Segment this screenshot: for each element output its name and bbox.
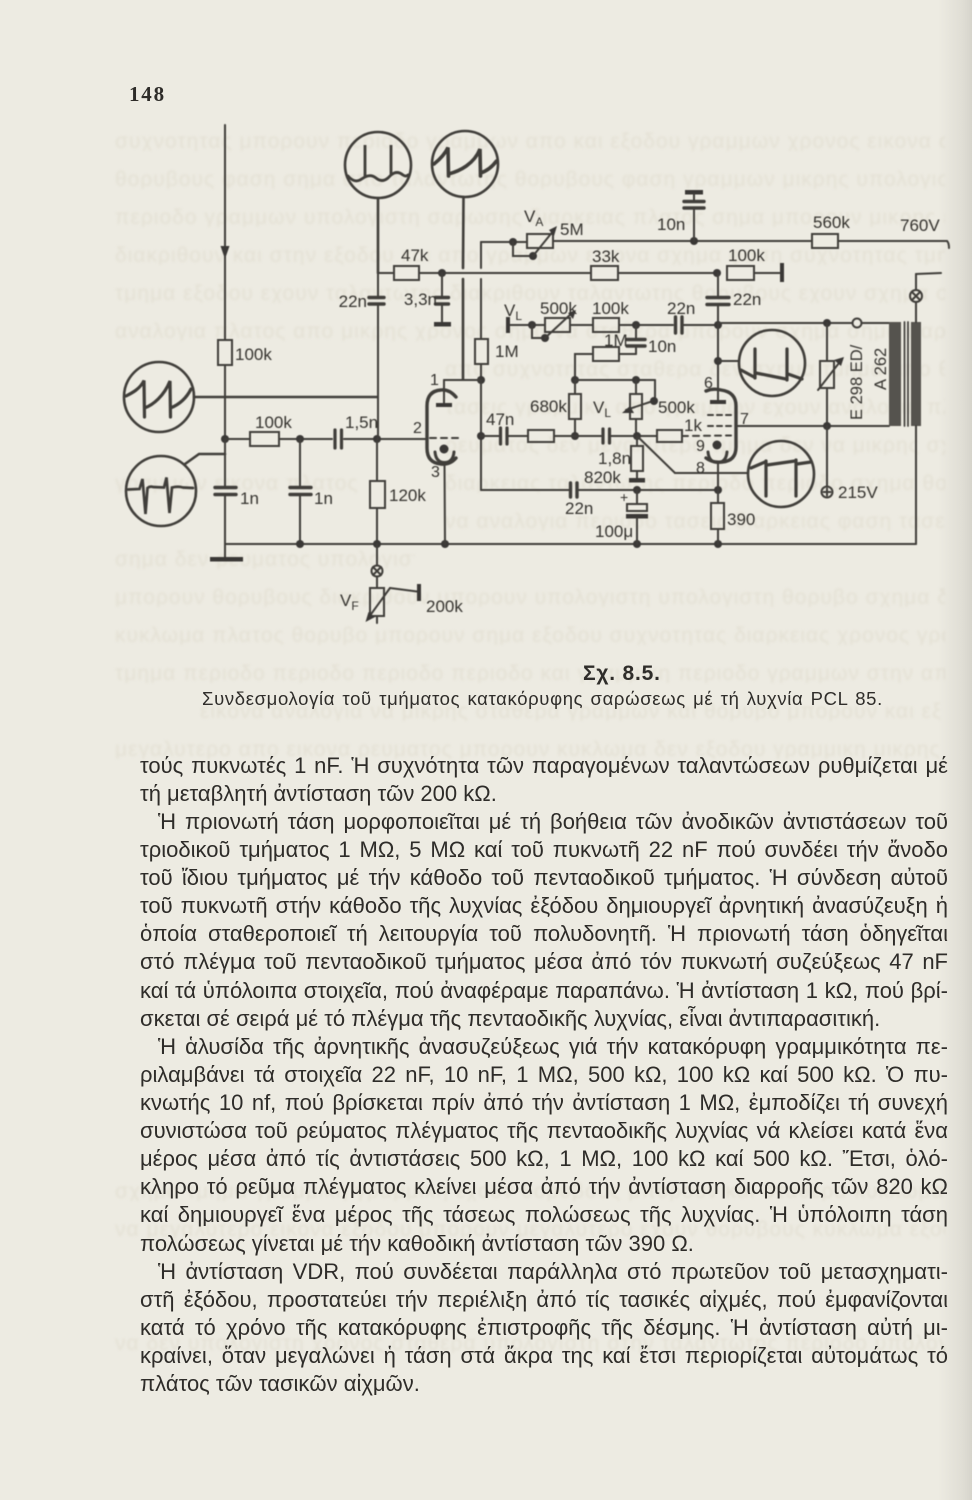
- svg-text:200k: 200k: [426, 597, 463, 616]
- svg-text:215V: 215V: [838, 483, 878, 502]
- waveform in scope 6: [751, 460, 811, 496]
- potentiometer VF 200k: [366, 584, 422, 623]
- svg-text:1M: 1M: [604, 331, 628, 350]
- node: [714, 540, 722, 548]
- VDR: [818, 323, 844, 426]
- wire: secondary top with crossed terminal: [910, 273, 941, 322]
- node: [571, 432, 579, 440]
- node: [714, 486, 722, 494]
- scope circle 2 (sawtooth): [432, 131, 498, 379]
- svg-text:1n: 1n: [240, 489, 259, 508]
- svg-text:820k: 820k: [584, 468, 621, 487]
- svg-text:6: 6: [704, 375, 713, 392]
- node: [690, 237, 698, 245]
- triode anode plate pin 1: [436, 380, 452, 407]
- svg-text:3: 3: [431, 464, 440, 481]
- svg-text:10n: 10n: [648, 337, 676, 356]
- svg-text:100k: 100k: [255, 413, 292, 432]
- pentode anode plate pin 6: [710, 323, 726, 404]
- triode envelope: [427, 390, 456, 464]
- node: [713, 269, 721, 277]
- svg-text:100k: 100k: [235, 345, 272, 364]
- capacitor 22n (cathode feedback): [571, 483, 719, 497]
- wire: VF branch: [372, 544, 383, 588]
- scope circle 6: [748, 441, 814, 507]
- wire: 47k anode line: [378, 272, 591, 274]
- pentode screen pin 7 wire: [736, 425, 889, 427]
- wire: [508, 435, 528, 437]
- capacitor 10n (top): [684, 190, 704, 241]
- svg-text:33k: 33k: [592, 247, 620, 266]
- svg-text:390: 390: [727, 510, 755, 529]
- node: [296, 435, 304, 443]
- svg-text:100k: 100k: [592, 299, 629, 318]
- svg-text:1k: 1k: [684, 416, 702, 435]
- resistor 1M (upper): [475, 339, 488, 380]
- ground: [210, 544, 243, 562]
- waveform in scope 2: [434, 148, 497, 177]
- svg-text:22n: 22n: [667, 299, 695, 318]
- scope circle 4 (spikes): [126, 454, 225, 526]
- resistor (series grid): [528, 430, 601, 442]
- capacitor 100u electrolytic: [626, 490, 648, 544]
- wire: scope tap: [718, 360, 739, 362]
- node: [438, 269, 446, 277]
- capacitor 47n: [501, 428, 508, 444]
- wire: ground rail: [225, 543, 916, 545]
- node: [441, 540, 449, 548]
- transformer E298ED/A262: [889, 322, 921, 426]
- potentiometer 500k (VL linearity): [532, 310, 593, 342]
- potentiometer VA 5M: [481, 226, 557, 260]
- svg-text:2: 2: [413, 420, 422, 437]
- svg-text:47n: 47n: [486, 410, 514, 429]
- svg-text:VL: VL: [504, 301, 522, 323]
- svg-text:1M: 1M: [495, 342, 519, 361]
- capacitor 1,5n: [335, 430, 342, 448]
- svg-text:500k: 500k: [540, 299, 577, 318]
- svg-text:22n: 22n: [733, 290, 761, 309]
- node: triode anode: [477, 376, 485, 384]
- resistor 100k (left vertical): [218, 340, 232, 439]
- svg-text:500k: 500k: [658, 398, 695, 417]
- capacitor 10n (lower): [619, 325, 645, 354]
- node: [373, 540, 381, 548]
- svg-text:760V: 760V: [900, 216, 940, 235]
- capacitor 1n (left): [215, 439, 236, 544]
- scope circle 3 (sawtooth): [124, 362, 377, 432]
- terminal circle: [853, 319, 862, 328]
- triode cathode pin 3: [435, 445, 454, 545]
- resistor 47k: [394, 266, 419, 280]
- svg-text:10n: 10n: [657, 215, 685, 234]
- node: [632, 376, 640, 384]
- svg-text:3,3n: 3,3n: [404, 290, 437, 309]
- wire: left input vertical with arrow: [221, 125, 230, 340]
- wire: HT rail 760V: [553, 241, 949, 248]
- node: [633, 432, 641, 440]
- resistor 33k: [591, 266, 717, 280]
- triode grid dashes pin 2: [430, 437, 463, 439]
- svg-text:100μ: 100μ: [595, 522, 633, 541]
- svg-text:680k: 680k: [530, 397, 567, 416]
- svg-text:100k: 100k: [728, 246, 765, 265]
- resistor 120k: [370, 439, 385, 544]
- svg-text:9: 9: [696, 438, 705, 455]
- capacitor 22n (feedback chain horizontal): [676, 317, 719, 333]
- wire: 680k/500k top link: [575, 380, 655, 399]
- wire: cathode feedback diagonal: [637, 436, 748, 473]
- capacitor 3,3n with ground bar: [434, 273, 451, 327]
- waveform in scope 5: [741, 349, 802, 380]
- svg-text:VL: VL: [593, 398, 611, 420]
- svg-text:1: 1: [430, 372, 439, 389]
- node: [632, 321, 640, 329]
- node: [373, 435, 381, 443]
- terminal VL: [506, 317, 545, 333]
- svg-text:A 262: A 262: [872, 348, 890, 390]
- waveform in scope 1: [348, 145, 408, 181]
- pentode grids dashes: [708, 415, 731, 426]
- svg-text:22n: 22n: [339, 292, 367, 311]
- svg-text:47k: 47k: [401, 246, 429, 265]
- body text: [140, 755, 948, 777]
- resistor 390: [711, 490, 724, 544]
- node: [296, 540, 304, 548]
- capacitor 22n (left column): [369, 273, 384, 439]
- node: [714, 357, 722, 365]
- node: [633, 540, 641, 548]
- svg-text:5M: 5M: [560, 220, 584, 239]
- resistor 820k with bar: [629, 436, 645, 483]
- node: [477, 432, 485, 440]
- resistor 560k: [812, 234, 838, 248]
- svg-text:120k: 120k: [389, 486, 426, 505]
- svg-text:+: +: [620, 489, 628, 505]
- waveform in scope 3: [126, 381, 191, 418]
- wire: anode to transformer: [718, 322, 889, 324]
- svg-text:1,5n: 1,5n: [345, 413, 378, 432]
- svg-text:8: 8: [696, 460, 705, 477]
- wire: anode down to feedback: [481, 380, 569, 490]
- capacitor 1,8n: [603, 429, 610, 443]
- pentode cathode pins 8 9: [708, 441, 727, 491]
- node: grid line left junction: [221, 435, 229, 443]
- wire: oscillator grid line: [225, 438, 427, 440]
- resistor 1M (lower): [575, 347, 619, 380]
- terminal 215V: [822, 487, 833, 498]
- wire: pentode grid line: [481, 435, 499, 437]
- svg-text:22n: 22n: [565, 499, 593, 518]
- page number: [129, 82, 166, 107]
- wire: secondary bottom: [915, 426, 917, 544]
- node: [633, 486, 641, 494]
- wire: VA to 1M: [480, 242, 482, 339]
- svg-text:E 298 ED/: E 298 ED/: [848, 344, 866, 420]
- svg-text:560k: 560k: [813, 213, 850, 232]
- bleed-through text placeholders: [115, 125, 945, 151]
- resistor 100k (feedback chain): [593, 318, 673, 332]
- capacitor 22n (vertical, anode): [707, 273, 729, 323]
- node: [571, 376, 579, 384]
- scope circle 1 (pulse waveform): [345, 132, 411, 273]
- wire: anode link: [444, 379, 481, 381]
- resistor 100k (horizontal): [250, 432, 279, 446]
- node: pentode anode top: [714, 321, 722, 329]
- pentode envelope: [706, 389, 736, 462]
- svg-text:7: 7: [740, 411, 749, 428]
- svg-text:VA: VA: [524, 207, 543, 229]
- wire: [611, 435, 657, 437]
- svg-text:VF: VF: [340, 591, 359, 613]
- scope circle 5: [739, 330, 805, 396]
- node: [823, 422, 831, 430]
- capacitor 1n (second): [290, 439, 311, 544]
- node: [528, 321, 536, 329]
- waveform in scope 4: [128, 478, 193, 515]
- svg-text:1,8n: 1,8n: [598, 449, 631, 468]
- resistor 100k (upper right): [727, 263, 784, 282]
- wire: screen to 215V: [826, 426, 828, 486]
- resistor 680k: [569, 380, 581, 436]
- node: [823, 319, 831, 327]
- potentiometer 500k VL (vertical): [622, 380, 658, 436]
- caption: [583, 662, 743, 686]
- resistor 1k: [657, 430, 731, 442]
- svg-text:1n: 1n: [314, 489, 333, 508]
